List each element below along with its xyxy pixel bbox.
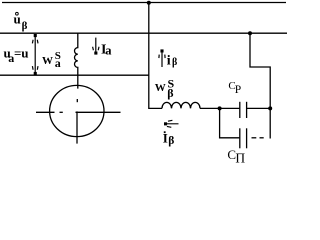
svg-text:W: W [42,55,53,67]
rotor horizontal axis: dash inside circle [60,111,63,113]
dashed wire: C_П to right vertical, dash 1 [252,137,257,139]
label i_β (current) [167,53,177,68]
wire: middle bus line [0,32,287,34]
label I_a (current) [101,43,112,58]
svg-text:=: = [14,45,21,60]
label C_П (parasitic capacitor) [227,147,245,166]
rotor vertical axis: dash inside circle [76,99,78,102]
inductor W_beta: 4 humps [162,102,200,108]
rotor horizontal axis: left solid stub [36,111,55,113]
junction dot: top bus / right vertical [147,1,151,5]
capacitor C_P left plate [239,102,241,118]
arrow: i_beta upward [159,49,165,67]
arrow: I_a downward [93,38,99,55]
svg-text:β: β [167,86,173,100]
svg-text:β: β [168,135,174,147]
label ů_β (voltage amplitude) [14,11,28,32]
label C_P (capacitor) [228,80,241,96]
svg-text:P: P [235,84,241,96]
capacitor C_P right plate [246,102,248,118]
junction dot: inductor wire left of C_P [218,106,222,110]
label W_β^S (stator winding β) [155,77,175,100]
svg-text:i: i [167,53,171,68]
svg-text:β: β [22,20,28,32]
svg-text:a: a [55,56,61,70]
arrow: İ_beta leftward [164,120,179,127]
label W_a^S (stator winding a) [42,50,61,70]
junction dot: right vertical at C_P wire [268,106,272,110]
label İ_β (current, complex amplitude) [163,131,175,148]
wire: inductor to capacitor C_P [200,107,239,109]
svg-text:W: W [155,82,166,94]
svg-text:a: a [105,43,112,57]
wire: top bus line [2,2,286,4]
junction dot: middle bus / step wire [248,31,252,35]
wire: lower bus line [0,74,149,76]
label u_a = u [4,45,29,65]
svg-text:β: β [172,57,177,68]
machine rotor circle [50,85,104,136]
svg-text:u: u [14,11,21,26]
wire: lower branch left vertical and to C_П [220,108,240,137]
wire: right vertical from top bus to inductor [149,3,162,109]
wire: step from middle bus down to right vertical [250,33,270,138]
svg-text:u: u [21,45,28,60]
winding W_a: vertical lead with wavy coil [75,33,78,88]
voltage arrow u_a (double headed, blob tips with barbs) [32,34,38,75]
svg-text:Π: Π [235,150,245,165]
capacitor C_П right plate [246,128,248,148]
wire: C_P right plate to right vertical [247,107,271,109]
capacitor C_П left plate [239,128,241,148]
rotor horizontal axis: right solid part [76,111,121,113]
dashed wire: C_П to right vertical, dash 2 [260,137,264,139]
rotor vertical axis: solid lower part [76,111,78,143]
